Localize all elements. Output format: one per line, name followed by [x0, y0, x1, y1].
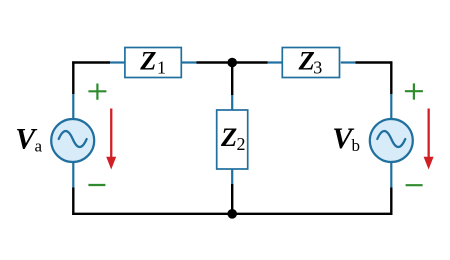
svg-text:a: a: [35, 137, 43, 156]
svg-text:3: 3: [313, 58, 322, 78]
svg-text:2: 2: [237, 134, 246, 154]
svg-text:1: 1: [157, 58, 166, 78]
svg-text:b: b: [352, 136, 361, 155]
svg-text:Z: Z: [139, 46, 156, 76]
svg-text:Z: Z: [220, 122, 237, 152]
svg-text:Z: Z: [298, 46, 315, 76]
